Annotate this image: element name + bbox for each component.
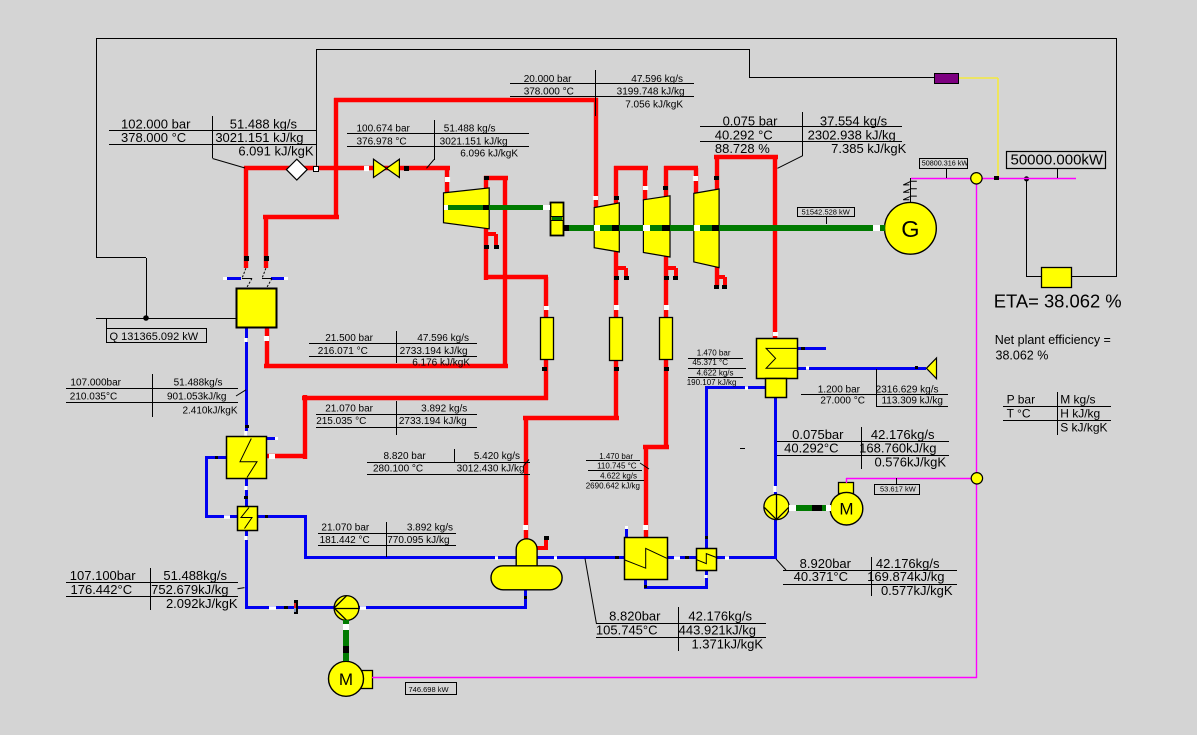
svg-text:H kJ/kg: H kJ/kg [1060, 407, 1100, 421]
svg-text:ETA= 38.062 %: ETA= 38.062 % [994, 291, 1122, 312]
svg-text:215.035 °C: 215.035 °C [316, 416, 366, 427]
svg-text:4.622 kg/s: 4.622 kg/s [697, 368, 734, 377]
svg-text:Net plant efficiency =: Net plant efficiency = [995, 333, 1111, 347]
svg-text:378.000 °C: 378.000 °C [121, 130, 186, 145]
svg-text:3012.430 kJ/kg: 3012.430 kJ/kg [457, 464, 525, 475]
svg-text:378.000 °C: 378.000 °C [524, 87, 574, 98]
svg-text:21.070 bar: 21.070 bar [325, 403, 373, 414]
svg-text:M: M [839, 500, 853, 519]
svg-text:168.760kJ/kg: 168.760kJ/kg [859, 440, 936, 455]
svg-text:50800.316 kW: 50800.316 kW [922, 159, 969, 168]
svg-text:107.000bar: 107.000bar [70, 377, 121, 388]
svg-text:1.200 bar: 1.200 bar [818, 385, 861, 396]
svg-text:770.095 kJ/kg: 770.095 kJ/kg [387, 535, 449, 546]
svg-text:901.053kJ/kg: 901.053kJ/kg [167, 392, 227, 403]
svg-text:181.442 °C: 181.442 °C [320, 535, 370, 546]
svg-text:S kJ/kgK: S kJ/kgK [1060, 421, 1107, 435]
svg-text:190.107 kJ/kg: 190.107 kJ/kg [687, 378, 737, 387]
svg-text:5.420 kg/s: 5.420 kg/s [474, 451, 520, 462]
svg-text:169.874kJ/kg: 169.874kJ/kg [867, 569, 944, 584]
svg-text:51542.528 kW: 51542.528 kW [802, 208, 851, 217]
svg-text:2733.194 kJ/kg: 2733.194 kJ/kg [400, 346, 468, 357]
svg-text:752.679kJ/kg: 752.679kJ/kg [151, 582, 228, 597]
svg-text:3199.748 kJ/kg: 3199.748 kJ/kg [617, 87, 685, 98]
svg-text:113.309 kJ/kg: 113.309 kJ/kg [881, 396, 943, 407]
svg-text:20.000 bar: 20.000 bar [524, 74, 572, 85]
svg-text:7.385 kJ/kgK: 7.385 kJ/kgK [831, 141, 906, 156]
svg-text:7.056 kJ/kgK: 7.056 kJ/kgK [625, 100, 683, 111]
svg-text:3021.151 kJ/kg: 3021.151 kJ/kg [440, 136, 508, 147]
svg-text:40.371°C: 40.371°C [794, 569, 848, 584]
svg-text:4.622 kg/s: 4.622 kg/s [600, 472, 637, 481]
svg-text:38.062 %: 38.062 % [996, 349, 1049, 363]
svg-text:100.674 bar: 100.674 bar [357, 124, 411, 135]
svg-text:0.577kJ/kgK: 0.577kJ/kgK [881, 583, 953, 598]
svg-text:6.091 kJ/kgK: 6.091 kJ/kgK [238, 144, 313, 159]
svg-text:6.096 kJ/kgK: 6.096 kJ/kgK [460, 148, 518, 159]
svg-text:51.488kg/s: 51.488kg/s [163, 568, 227, 583]
svg-text:2316.629 kg/s: 2316.629 kg/s [876, 385, 939, 396]
svg-text:M: M [339, 670, 353, 689]
svg-text:6.176 kJ/kgK: 6.176 kJ/kgK [412, 357, 470, 368]
svg-text:280.100 °C: 280.100 °C [373, 464, 423, 475]
svg-text:47.596 kg/s: 47.596 kg/s [631, 74, 683, 85]
svg-text:8.820bar: 8.820bar [609, 609, 661, 624]
svg-text:2.092kJ/kgK: 2.092kJ/kgK [166, 596, 238, 611]
svg-text:45.371 °C: 45.371 °C [692, 358, 728, 367]
svg-text:1.470 bar: 1.470 bar [697, 349, 731, 358]
svg-text:40.292°C: 40.292°C [784, 440, 838, 455]
svg-text:P bar: P bar [1007, 393, 1035, 407]
svg-text:3.892 kg/s: 3.892 kg/s [421, 403, 467, 414]
svg-text:88.728 %: 88.728 % [715, 141, 770, 156]
svg-text:42.176kg/s: 42.176kg/s [688, 609, 752, 624]
svg-text:176.442°C: 176.442°C [71, 582, 133, 597]
svg-text:21.500 bar: 21.500 bar [325, 333, 373, 344]
svg-text:0.075 bar: 0.075 bar [723, 113, 779, 128]
svg-text:2.410kJ/kgK: 2.410kJ/kgK [182, 406, 237, 417]
svg-text:107.100bar: 107.100bar [70, 568, 136, 583]
svg-text:1.470 bar: 1.470 bar [599, 452, 633, 461]
svg-text:3.892 kg/s: 3.892 kg/s [407, 522, 453, 533]
svg-text:110.745 °C: 110.745 °C [597, 462, 637, 471]
svg-text:2690.642 kJ/kg: 2690.642 kJ/kg [586, 482, 640, 491]
svg-text:1.371kJ/kgK: 1.371kJ/kgK [691, 637, 763, 652]
svg-text:53.617 kW: 53.617 kW [880, 484, 917, 493]
svg-text:0.576kJ/kgK: 0.576kJ/kgK [874, 454, 946, 469]
svg-text:50000.000kW: 50000.000kW [1011, 151, 1104, 168]
svg-text:Q 131365.092 kW: Q 131365.092 kW [110, 331, 199, 343]
svg-text:21.070 bar: 21.070 bar [321, 522, 369, 533]
svg-text:216.071 °C: 216.071 °C [318, 346, 368, 357]
svg-text:105.745°C: 105.745°C [596, 623, 658, 638]
svg-text:51.488 kg/s: 51.488 kg/s [444, 124, 496, 135]
svg-text:G: G [901, 216, 919, 242]
svg-text:37.554 kg/s: 37.554 kg/s [820, 113, 888, 128]
svg-text:746.698 kW: 746.698 kW [409, 685, 450, 694]
svg-text:376.978 °C: 376.978 °C [357, 136, 407, 147]
svg-text:T °C: T °C [1007, 407, 1031, 421]
svg-text:443.921kJ/kg: 443.921kJ/kg [679, 623, 756, 638]
svg-text:M kg/s: M kg/s [1060, 393, 1095, 407]
svg-text:51.488kg/s: 51.488kg/s [174, 377, 223, 388]
svg-text:8.820 bar: 8.820 bar [384, 451, 427, 462]
svg-text:210.035°C: 210.035°C [70, 392, 117, 403]
svg-text:47.596 kg/s: 47.596 kg/s [417, 333, 469, 344]
svg-text:27.000 °C: 27.000 °C [820, 396, 865, 407]
svg-text:2733.194 kJ/kg: 2733.194 kJ/kg [399, 416, 467, 427]
